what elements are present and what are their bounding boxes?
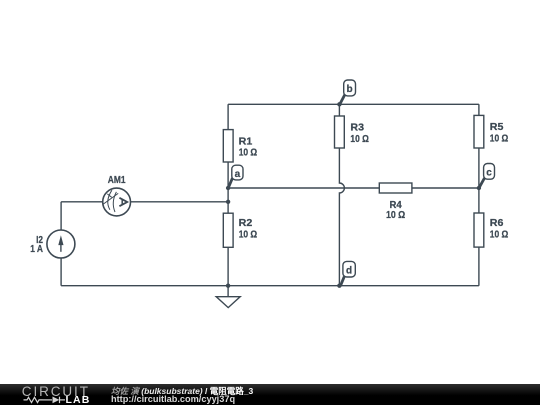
node d — [341, 261, 356, 285]
wire middle horizontal (node a to node c) — [228, 187, 479, 189]
svg-text:c: c — [486, 167, 492, 178]
svg-text:1 A: 1 A — [30, 244, 43, 255]
wire bottom horizontal — [61, 285, 479, 287]
ammeter AM1 — [103, 175, 131, 216]
junction dot node c — [477, 186, 481, 190]
svg-text:R3: R3 — [350, 123, 364, 134]
svg-text:10 Ω: 10 Ω — [490, 229, 509, 240]
node b — [340, 80, 356, 104]
resistor R1 — [223, 130, 257, 162]
CircuitLab logo — [0, 384, 110, 405]
svg-text:R6: R6 — [490, 218, 504, 229]
ground — [216, 286, 240, 308]
svg-text:10 Ω: 10 Ω — [239, 229, 258, 240]
svg-text:R5: R5 — [490, 122, 504, 133]
resistor R4 — [379, 183, 412, 221]
svg-text:R2: R2 — [239, 218, 253, 229]
resistor R3 — [335, 116, 369, 148]
svg-text:b: b — [347, 84, 353, 95]
junction dot ground — [226, 284, 230, 288]
current source I2 — [30, 230, 75, 258]
junction dot node b — [337, 102, 341, 106]
node a — [228, 165, 243, 188]
junction dot ammeter wire — [226, 200, 230, 204]
svg-text:d: d — [346, 266, 352, 277]
svg-text:10 Ω: 10 Ω — [350, 134, 369, 145]
resistor R5 — [474, 115, 508, 148]
junction dot node d — [337, 284, 341, 288]
node c — [479, 164, 495, 188]
wire middle vertical with hop over middle wire — [339, 104, 344, 285]
junction dot node a — [226, 186, 230, 190]
wire left branch vertical (node b column left) — [227, 104, 229, 285]
svg-text:R1: R1 — [239, 136, 253, 147]
wire left source vertical — [60, 202, 62, 286]
svg-text:10 Ω: 10 Ω — [490, 133, 509, 144]
footer bar — [0, 384, 540, 405]
svg-text:a: a — [235, 169, 241, 180]
svg-text:10 Ω: 10 Ω — [239, 148, 258, 159]
svg-text:10 Ω: 10 Ω — [386, 210, 405, 221]
resistor R6 — [474, 213, 508, 247]
svg-text:AM1: AM1 — [108, 175, 126, 186]
resistor R2 — [223, 213, 257, 247]
svg-text:LAB: LAB — [66, 394, 91, 405]
wire right vertical — [478, 104, 480, 285]
wire ammeter horizontal — [61, 201, 228, 203]
wire top horizontal — [228, 103, 479, 105]
